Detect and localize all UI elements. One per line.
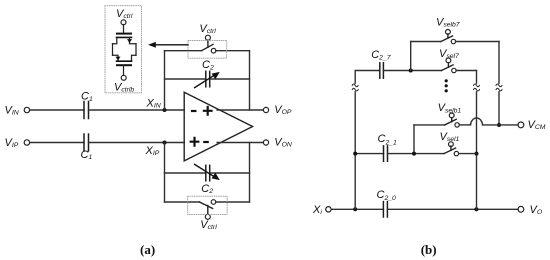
wire Vselb1 row left	[414, 124, 445, 126]
node junction dot inner rail / Vsel1	[475, 152, 479, 156]
switch S1 control terminal circle Vctrl	[205, 35, 210, 40]
capacitor C2 (bottom, variable) plates	[206, 165, 210, 181]
node XIN junction dot	[163, 108, 167, 112]
op-amp minus sign (top-left)	[191, 110, 197, 112]
wire right rail top (switch/C2 to VOP node)	[249, 51, 251, 110]
switch Vselb7 contact circle	[451, 39, 455, 43]
switch Vselb7 control stub	[447, 34, 449, 39]
wire left rail XIP down to bottom switch	[164, 143, 166, 203]
transmission gate: bottom gate bar	[117, 64, 131, 66]
arrow from switch S1 to inset	[148, 42, 188, 48]
transmission gate: right rail	[135, 44, 137, 56]
capacitor C2_0 plates	[383, 202, 387, 217]
capacitor C2_7 plates	[380, 63, 384, 78]
dashed box around switch S2	[188, 196, 227, 214]
switch S1 control stub	[207, 40, 209, 47]
node VO terminal circle	[518, 206, 524, 212]
switch Vselb1 blade	[445, 119, 457, 125]
transmission gate: Vctrl terminal circle	[121, 20, 126, 25]
switch Vselb7 control terminal circle	[446, 30, 451, 35]
switch S2 blade	[200, 202, 213, 208]
node junction dot left rail / C2_1	[353, 152, 357, 156]
break squiggle inner rail	[474, 84, 480, 91]
wire outer rail upper	[498, 42, 500, 84]
switch Vsel1 control terminal circle	[449, 142, 454, 147]
transmission gate: top-right lead with arrow	[130, 37, 137, 43]
svg-text:(b): (b)	[421, 242, 437, 257]
switch Vsel7 blade	[442, 65, 454, 71]
node XIP junction dot	[163, 141, 167, 145]
transmission gate: Vctrlb terminal circle	[121, 75, 126, 80]
transmission gate: bottom channel	[117, 60, 132, 62]
node junction dot left rail bottom	[353, 207, 357, 211]
wire VIN to C1 top	[30, 109, 84, 111]
node VON terminal circle	[263, 140, 268, 145]
wire outer rail lower	[498, 92, 500, 125]
wire bit7 rail up	[410, 42, 412, 71]
wire C2_1 to switch Vsel1	[388, 153, 445, 155]
capacitor C2_1 plates	[384, 146, 388, 161]
switch Vsel1 contact circle	[454, 151, 458, 155]
node Xi terminal circle	[326, 207, 331, 212]
wire op-amp to VON	[217, 142, 263, 144]
wire inner rail lower	[476, 92, 478, 210]
ellipsis dots between bit sections	[445, 79, 448, 92]
wire C2_7 row left	[355, 70, 380, 72]
switch S1 contact circle	[211, 48, 216, 53]
switch Vsel1 control stub	[450, 146, 452, 151]
wire inner rail upper	[476, 71, 478, 84]
node junction dot VCM	[497, 123, 501, 127]
node VIP terminal circle	[24, 140, 29, 145]
switch Vselb1 control stub	[451, 118, 453, 122]
node junction dot bit1	[412, 152, 416, 156]
wire C2 top row left	[165, 78, 206, 80]
capacitor C1 (bottom)	[84, 134, 89, 151]
switch Vsel7 control stub	[447, 63, 449, 68]
wire switch Vselb1 to hop	[459, 124, 470, 126]
wire right rail bottom (VON node to switch/C2)	[249, 143, 251, 203]
transmission gate: top gate bar	[117, 33, 131, 35]
wire bit1 rail up	[413, 125, 415, 154]
wire C2_0 to VO	[387, 208, 518, 210]
wire bottom rail to switch S2	[165, 201, 200, 203]
wire op-amp to VOP	[217, 109, 263, 111]
wire top rail to switch S1	[165, 50, 202, 52]
wire switch Vsel1 to inner rail	[459, 153, 477, 155]
transmission gate: left rail	[112, 44, 114, 56]
transmission gate: top channel	[117, 36, 132, 38]
node junction dot bit7	[409, 69, 413, 73]
arrow across C2 bottom	[195, 164, 220, 180]
arrow across C2 top	[195, 72, 220, 88]
wire C1 to op-amp input XIP	[89, 142, 185, 144]
switch Vselb7 blade	[441, 36, 453, 42]
node junction dot inner rail bottom	[474, 207, 478, 211]
transmission gate: bottom-right lead	[132, 55, 137, 61]
wire switch S2 to right rail	[216, 201, 250, 203]
wire switch Vsel7 to inner rail	[456, 70, 476, 72]
wire C2 bottom row right	[210, 172, 250, 174]
wire VIP to C1 bottom	[30, 142, 84, 144]
wire hop over inner rail	[471, 118, 483, 125]
wire left rail XIN up to top switch	[164, 51, 166, 110]
op-amp plus sign (bottom)	[191, 138, 199, 146]
switch Vsel7 control terminal circle	[446, 58, 451, 63]
wire left rail upper	[354, 71, 356, 84]
svg-text:(a): (a)	[140, 242, 155, 257]
wire C2 bottom row left	[165, 172, 206, 174]
wire C1 to op-amp input XIN	[89, 109, 185, 111]
node VIN terminal circle	[24, 107, 29, 112]
op-amp U1 triangle	[184, 92, 252, 161]
switch S2 control terminal circle Vctrl	[205, 214, 210, 219]
dashed box inset transmission gate	[105, 6, 142, 93]
wire C2 top row right	[210, 78, 250, 80]
switch Vsel7 contact circle	[452, 68, 456, 72]
switch Vsel1 blade	[444, 148, 456, 154]
dashed box around switch S1	[188, 40, 227, 58]
break squiggle left rail	[352, 84, 358, 91]
capacitor C1 (top)	[84, 102, 89, 119]
switch S2 control stub	[207, 206, 209, 215]
node VCM terminal circle	[518, 122, 524, 128]
transmission gate: bottom-left lead with arrow	[113, 55, 119, 61]
switch Vselb1 control terminal circle	[449, 113, 454, 118]
switch Vselb1 contact circle	[455, 123, 459, 127]
node VOP terminal circle	[263, 107, 268, 112]
op-amp minus sign (bottom-right)	[203, 141, 209, 143]
transmission gate: top-left lead	[113, 37, 117, 43]
op-amp plus sign (top)	[204, 107, 212, 115]
capacitor C2 (top, variable) plates	[206, 71, 210, 87]
switch S2 contact circle	[211, 200, 216, 205]
wire hop to VCM	[483, 124, 518, 126]
wire C2_1 row left	[355, 153, 383, 155]
break squiggle outer rail	[496, 84, 502, 91]
wire switch S1 to right rail	[216, 50, 250, 52]
transmission gate: bottom gate stub	[123, 65, 125, 75]
wire Vselb7 row left	[411, 41, 441, 43]
wire Xi to C2_0	[331, 208, 383, 210]
wire left rail lower	[354, 92, 356, 210]
transmission gate: top gate stub	[123, 25, 125, 33]
switch S1 blade	[202, 44, 214, 50]
wire C2_7 to switch Vsel7	[383, 70, 441, 72]
wire switch Vselb7 to outer rail	[456, 41, 499, 43]
